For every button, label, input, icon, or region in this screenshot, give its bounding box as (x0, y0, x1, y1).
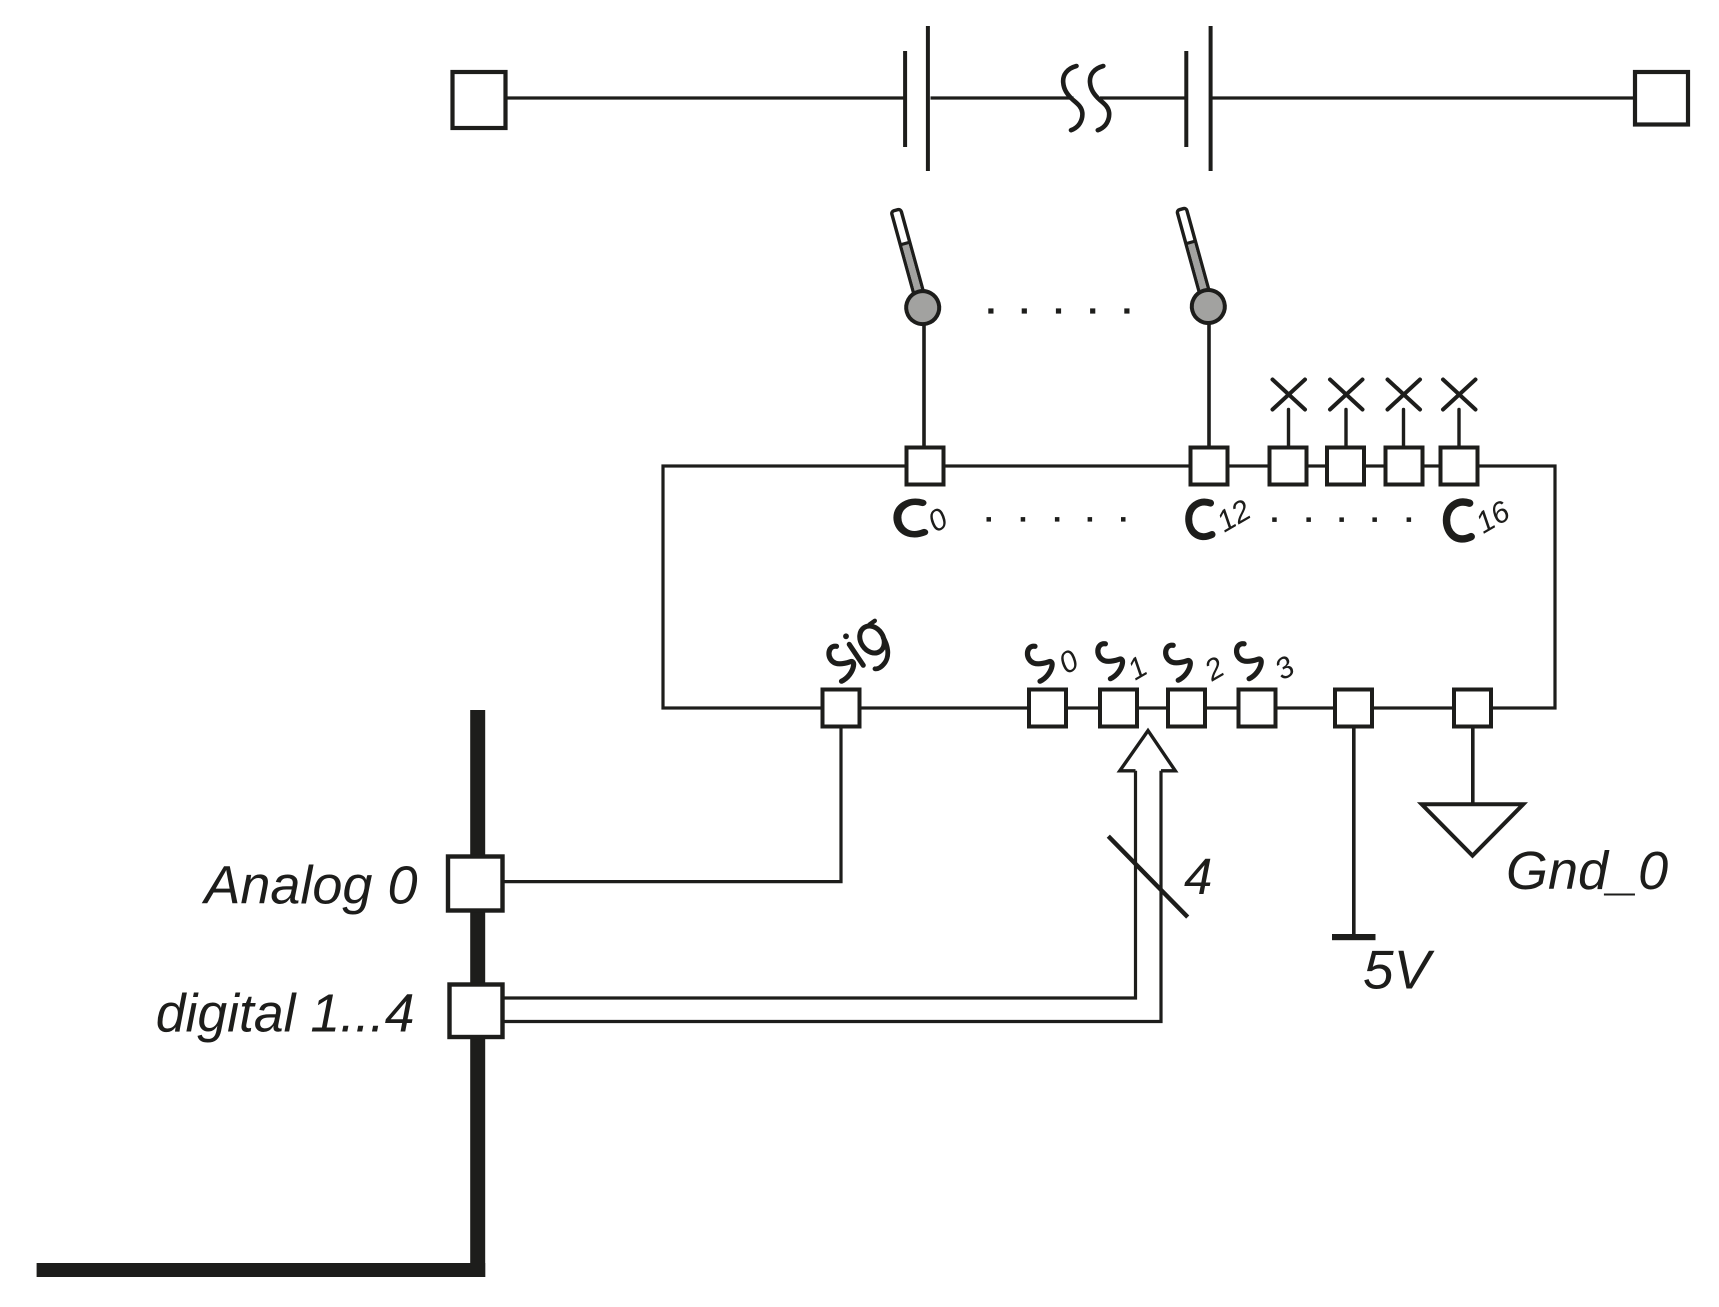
wire: top line right segment (1213, 96, 1636, 99)
wire: GND pin down (1471, 727, 1475, 806)
pin Sig (823, 690, 860, 727)
pin C0 (907, 448, 944, 485)
svg-text:Analog 0: Analog 0 (201, 856, 417, 916)
pin S1 (1100, 690, 1137, 727)
port digital 1...4 (450, 985, 503, 1038)
svg-text:3: 3 (1269, 650, 1300, 687)
capacitor a plate tall (926, 26, 930, 171)
wire break curve right (1090, 66, 1109, 130)
label S3 (1237, 644, 1301, 687)
pin S0 (1029, 690, 1066, 727)
bus width slash (1108, 836, 1187, 917)
pin S3 (1239, 690, 1276, 727)
capacitor a plate short (903, 51, 907, 147)
no-connect X mark 3 (1388, 380, 1421, 448)
controller board edge vertical (470, 710, 485, 1277)
ground symbol Gnd_0 (1422, 804, 1524, 855)
label C16 (1447, 495, 1516, 540)
5V rail bar (1332, 934, 1376, 940)
svg-text:1: 1 (1122, 650, 1153, 687)
wire: top line between break and capacitor b (1100, 96, 1185, 99)
svg-text:0: 0 (1053, 644, 1084, 681)
no-connect X mark 2 (1330, 380, 1363, 448)
svg-text:2: 2 (1198, 651, 1230, 689)
label Sig (829, 621, 889, 681)
wire: digital bus line 1 (503, 771, 1136, 998)
pin nc3 (1386, 448, 1423, 485)
svg-text:12: 12 (1211, 494, 1257, 539)
wire: top line between capacitor a and break (931, 96, 1074, 99)
controller board edge horizontal (37, 1263, 486, 1277)
label S0 (1027, 644, 1084, 681)
pin nc2 (1327, 448, 1364, 485)
capacitor b plate tall (1209, 26, 1213, 171)
label S2 (1166, 645, 1231, 688)
terminal square left (453, 72, 506, 128)
dots between thermometers (988, 308, 1129, 313)
svg-text:Gnd_0: Gnd_0 (1506, 841, 1668, 901)
wire break curve left (1063, 66, 1082, 130)
wire: 5V pin down (1352, 727, 1356, 935)
capacitor b plate short (1184, 51, 1188, 147)
svg-text:digital 1...4: digital 1...4 (156, 985, 415, 1044)
wire: top sensor line left segment (505, 96, 904, 99)
dots between C0 and C12 (987, 517, 1126, 522)
wire: thermometer 2 to pin C12 (1207, 307, 1211, 449)
label C12 (1189, 494, 1257, 539)
no-connect X mark 4 (1443, 380, 1476, 448)
thermometer RT2 (1166, 205, 1229, 327)
dots between C12 and C16 (1272, 517, 1411, 522)
pin C12 (1191, 448, 1228, 485)
pin nc4 (1441, 448, 1478, 485)
port Analog 0 (448, 857, 503, 911)
pin VCC (1335, 690, 1372, 727)
wire: digital bus line 2 (503, 771, 1161, 1022)
terminal square right (1635, 72, 1688, 125)
thermometer RT1 (880, 206, 943, 328)
pin nc1 (1270, 448, 1307, 485)
wire: thermometer 1 to pin C0 (922, 307, 926, 449)
svg-text:5V: 5V (1363, 939, 1435, 1001)
label C0 (897, 502, 953, 539)
wire: Sig pin to Analog 0 (503, 727, 841, 882)
bus arrow head (1120, 731, 1176, 771)
pin S2 (1168, 690, 1205, 727)
pin GND (1454, 690, 1491, 727)
label S1 (1098, 644, 1153, 687)
svg-text:4: 4 (1184, 848, 1212, 905)
no-connect X mark 1 (1273, 380, 1306, 448)
multiplexer box U1 (663, 466, 1555, 708)
svg-text:16: 16 (1470, 495, 1516, 540)
